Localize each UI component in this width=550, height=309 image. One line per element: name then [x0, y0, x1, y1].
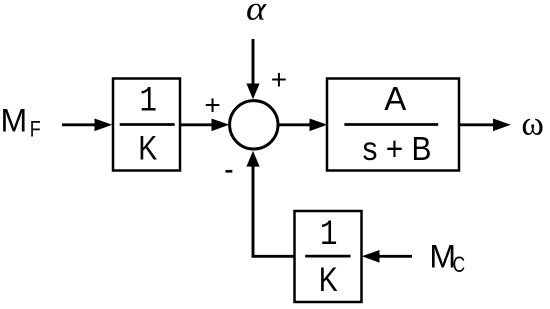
- svg-text:A: A: [384, 80, 406, 117]
- svg-text:α: α: [246, 0, 267, 27]
- svg-text:F: F: [30, 117, 41, 142]
- svg-text:C: C: [453, 252, 466, 277]
- svg-text:s + B: s + B: [363, 130, 432, 167]
- svg-text:K: K: [138, 130, 157, 168]
- svg-text:M: M: [1, 102, 28, 138]
- svg-text:1: 1: [139, 82, 157, 122]
- svg-text:K: K: [319, 261, 338, 299]
- svg-text:ω: ω: [521, 106, 544, 143]
- svg-text:1: 1: [320, 215, 338, 255]
- svg-text:+: +: [204, 89, 220, 120]
- svg-text:+: +: [271, 64, 287, 95]
